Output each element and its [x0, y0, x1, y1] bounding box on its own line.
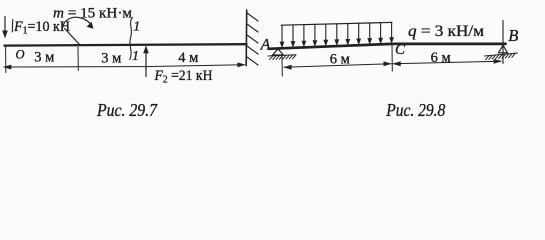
fixed support wall [245, 10, 248, 66]
svg-text:Рис. 29.8: Рис. 29.8 [385, 100, 445, 120]
section line 1-1 (wavy cut mark) [130, 18, 133, 60]
force F1 arrow [2, 17, 8, 39]
svg-text:4 м: 4 м [178, 50, 198, 66]
svg-text:B: B [508, 26, 518, 45]
svg-text:1: 1 [132, 49, 139, 64]
beam (Рис. 29.8) [269, 44, 506, 49]
roller support B vertical tick [502, 21, 504, 64]
dimension tick at O [5, 47, 7, 73]
pin support A (triangle) [273, 49, 284, 55]
wall hatching [247, 13, 258, 65]
svg-text:1: 1 [133, 20, 140, 35]
svg-text:q = 3 кН/м: q = 3 кН/м [408, 23, 484, 40]
svg-text:6 м: 6 м [431, 50, 451, 66]
svg-text:6 м: 6 м [330, 52, 350, 68]
dimension line O–wall [3, 62, 246, 69]
dimension line 6 м (C–B) [392, 59, 502, 66]
force F2 arrow [143, 45, 149, 76]
svg-text:3 м: 3 м [34, 50, 54, 66]
svg-text:3 м: 3 м [101, 51, 121, 67]
moment m arrow (stem + curved hook) [63, 17, 94, 44]
beam (Рис. 29.7) [5, 44, 247, 45]
support B triangle [499, 45, 508, 53]
label F1 = 10 кН [12, 19, 70, 37]
dimension line 6 м (A–C) [283, 61, 392, 69]
distributed load arrows [280, 22, 394, 48]
svg-text:O: O [16, 47, 25, 61]
support B hatching [485, 53, 518, 60]
dimension tick at A [281, 56, 283, 77]
svg-text:Рис. 29.7: Рис. 29.7 [96, 100, 158, 120]
svg-text:C: C [395, 42, 406, 58]
support A hatching [268, 55, 296, 60]
svg-text:F2 =21 кН: F2 =21 кН [154, 68, 213, 86]
distributed load q: top line [281, 22, 392, 25]
node C tick [391, 45, 393, 71]
svg-text:m = 15 кН·м: m = 15 кН·м [53, 6, 133, 22]
dimension tick at m (x=77) [77, 47, 79, 71]
svg-text:A: A [260, 36, 271, 53]
